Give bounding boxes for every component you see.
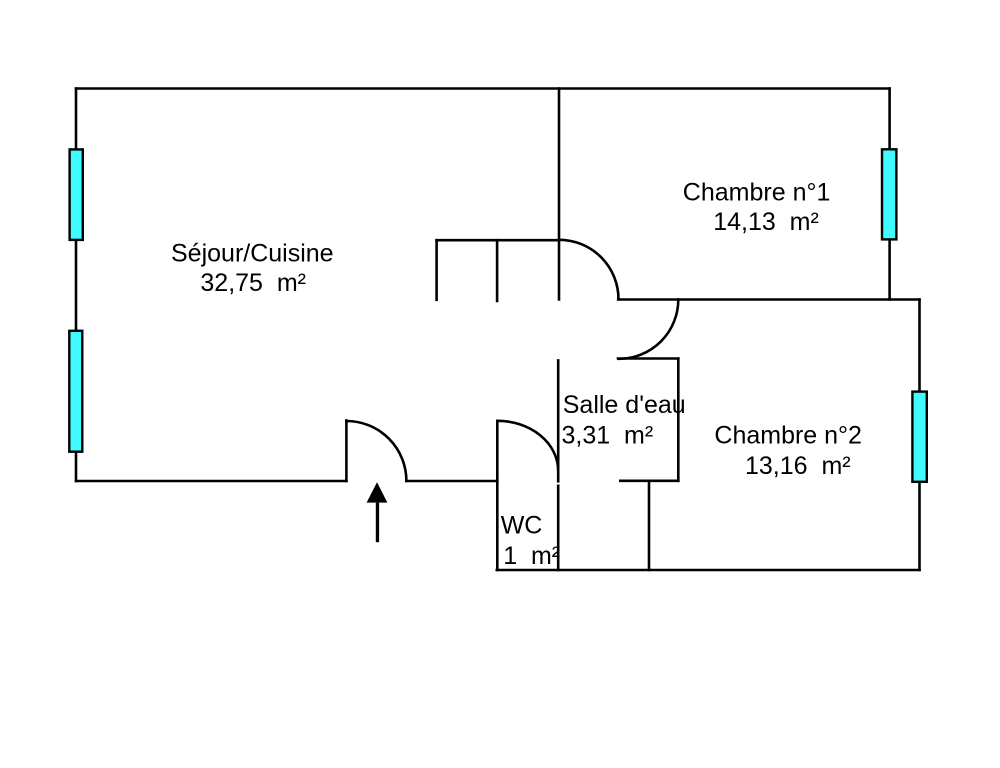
svg-text:13,16 m²: 13,16 m² [745,452,851,480]
wire right wall upper [888,89,891,300]
svg-text:14,13 m²: 14,13 m² [713,208,819,236]
wire counter top [437,239,559,242]
svg-text:Séjour/Cuisine: Séjour/Cuisine [171,240,334,268]
wire right wall lower [918,300,921,571]
wire counter tick left [435,240,438,300]
window right 2 [912,392,926,482]
wire salle d'eau left wall lower [557,486,560,570]
wire salle d'eau bottom wall [620,479,678,482]
wire counter tick mid [496,240,499,301]
wire chambre2 door arc [619,300,678,359]
wire chambre2 door leaf wall [618,357,678,360]
svg-text:WC: WC [501,512,543,540]
wire main interior vertical wall [558,89,561,300]
svg-text:Chambre n°2: Chambre n°2 [714,421,862,449]
window right 1 [882,149,896,239]
svg-text:Salle d'eau: Salle d'eau [563,391,686,419]
wire sejour door jamb [345,421,348,482]
wire chambre1 door arc [559,240,619,299]
wire salle d'eau left wall upper [557,360,560,481]
wire WC door arc [497,421,558,471]
wire top wall [76,87,890,90]
wire mid horizontal wall [618,298,919,301]
arrow entrance [367,482,388,542]
svg-text:Chambre n°1: Chambre n°1 [683,178,831,206]
wire sejour door arc [346,421,406,481]
wire bottom wall [497,569,920,572]
svg-text:32,75 m²: 32,75 m² [200,269,306,297]
window left 2 [69,331,82,452]
wire sejour bottom wall right [406,480,497,483]
window left 1 [70,149,83,240]
svg-text:3,31 m²: 3,31 m² [562,422,654,450]
svg-text:1 m²: 1 m² [503,542,560,570]
wire sejour bottom wall left [76,480,346,483]
wire salle d'eau right wall [677,359,680,481]
wire partition wall [648,481,651,570]
wire WC left wall [496,421,499,570]
wire left wall [75,89,78,482]
